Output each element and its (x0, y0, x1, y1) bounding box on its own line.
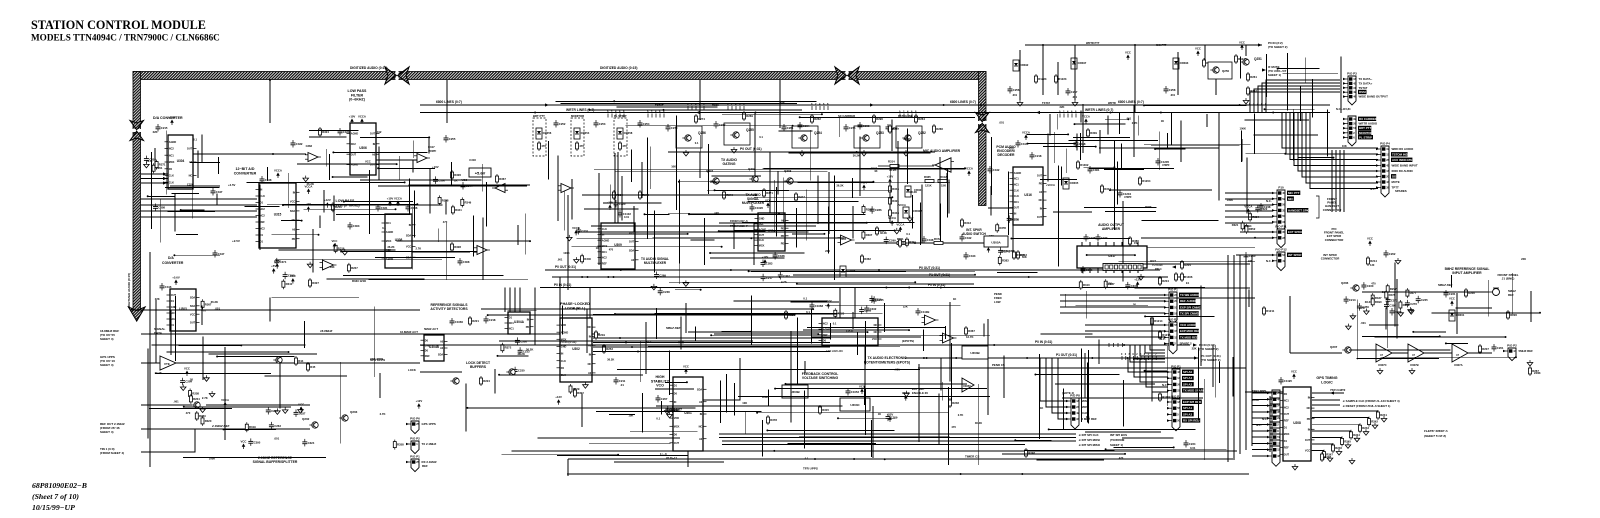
capacitor mid gap capacitor 1 (654, 272, 666, 280)
svg-text:R204: R204 (1184, 263, 1191, 267)
wire area B topmid h22 (710, 257, 784, 259)
ground ladder ground 2 (1363, 429, 1369, 435)
connector P1 mid a (1164, 292, 1178, 324)
wire area F rightmid v19 (1200, 286, 1202, 367)
wire area B2 h5 (764, 167, 966, 169)
svg-text:NC1: NC1 (602, 251, 608, 254)
wire area A2 topleft v4 (524, 214, 526, 255)
svg-text:R309: R309 (1090, 131, 1097, 135)
ground q202 knot2 ground 4 (275, 408, 281, 414)
svg-text:.001: .001 (274, 437, 280, 441)
junction bus junction 4 (1239, 104, 1241, 106)
svg-text:VCC: VCC (872, 338, 877, 341)
power power vcc u303c (859, 385, 865, 395)
wire area B topmid h11 (719, 230, 766, 232)
wire p4 feed 4 (1298, 170, 1377, 172)
svg-text:+10V: +10V (387, 197, 394, 201)
capacitor capacitor C240 (1244, 252, 1256, 260)
junction area H farright j8 (1445, 342, 1447, 344)
svg-text:36.2K: 36.2K (910, 190, 917, 194)
svg-text:WRTR AUDIO: WRTR AUDIO (1359, 122, 1378, 126)
wire area E3 v12 (734, 383, 736, 416)
resistor R311b (897, 237, 906, 245)
junction bus junction 16 (620, 269, 622, 271)
resistor u315 area resistor 0 (282, 279, 293, 289)
svg-text:68P81090E02−B: 68P81090E02−B (32, 481, 87, 490)
wire area C right of shield h5 (1141, 237, 1255, 239)
junction bus junction 21 (1127, 357, 1129, 359)
junction area A2 topleft j8 (404, 181, 406, 183)
wire area F rightmid v21 (1166, 346, 1168, 406)
wire p8 fan 1 (1046, 358, 1067, 407)
wire p1b fan 2 (1140, 358, 1168, 382)
power power vcc cr201 (1449, 297, 1455, 307)
ground ladder ground 3 (1354, 436, 1360, 442)
svg-text:LO1 LO2 LO3: LO1 LO2 LO3 (826, 349, 843, 353)
svg-text:C392: C392 (1389, 304, 1396, 308)
amp U307C tri (1376, 344, 1392, 362)
wire p1 mid feed 3 (1060, 312, 1165, 314)
wire p8 fan 3 (1058, 358, 1067, 419)
svg-text:C272: C272 (719, 123, 726, 127)
wire area B topmid v2 (774, 180, 776, 229)
svg-text:N.C.: N.C. (1256, 423, 1262, 427)
junction area E midbottom j8 (614, 313, 616, 315)
wire q206 to q207 h (1290, 352, 1342, 354)
resistor ladder resistor R243 (1359, 423, 1370, 433)
svg-text:DIGITIZED AUDIO (0:15): DIGITIZED AUDIO (0:15) (350, 66, 387, 70)
wire p4 corner 5 (1302, 113, 1378, 178)
svg-text:R271: R271 (159, 163, 166, 167)
svg-text:◄ RESET (FROM U518−6 SHEET 1): ◄ RESET (FROM U518−6 SHEET 1) (1342, 404, 1390, 408)
wire area A2 topleft h15 (279, 249, 396, 251)
wire bus p0 out mid (545, 269, 1160, 271)
svg-text:PD: PD (781, 227, 785, 230)
svg-text:NC2: NC2 (351, 143, 357, 146)
svg-text:IN: IN (700, 413, 703, 416)
svg-text:P0 OUT (0:31): P0 OUT (0:31) (740, 147, 762, 151)
svg-text:C318: C318 (469, 158, 476, 162)
svg-text:0.01: 0.01 (624, 215, 630, 219)
wire area B topmid v11 (631, 149, 633, 182)
wire area E3 h4 (655, 388, 694, 390)
svg-text:CLK: CLK (759, 239, 764, 242)
svg-text:10K: 10K (714, 211, 719, 215)
svg-text:C276: C276 (1410, 302, 1417, 306)
wire area B topmid v15 (912, 195, 914, 229)
svg-text:LOCK: LOCK (408, 368, 416, 372)
wire area A2 topleft h10 (341, 251, 477, 253)
wire p3 corner 1 (1254, 89, 1340, 113)
junction bus junction 11 (923, 357, 925, 359)
svg-text:VCC: VCC (1449, 297, 1455, 301)
wire area A2 topleft v10 (319, 215, 321, 228)
bus tick 5-3 (659, 114, 661, 118)
power q202 area power 6 (241, 440, 247, 450)
wire p10 feed 2 (1225, 204, 1273, 206)
wire area C2 v5 (1076, 133, 1078, 150)
ground epot right ground 0 (904, 391, 910, 397)
capacitor capacitor near Q252 (886, 124, 898, 132)
wire right bundle v2 (1239, 255, 1241, 454)
ground ground near Q252 (903, 150, 909, 156)
wire area A1 topleft v4 (160, 199, 162, 243)
ground u306 left ground 5 (303, 176, 309, 182)
svg-text:C279: C279 (671, 126, 678, 130)
svg-text:FLEPS−48638−A: FLEPS−48638−A (1424, 429, 1448, 433)
svg-text:R1213: R1213 (1162, 333, 1171, 337)
svg-text:POTENTIOMETERS (EPOTS): POTENTIOMETERS (EPOTS) (864, 361, 910, 365)
wire area B2 v0 (948, 180, 950, 214)
svg-text:2.7K: 2.7K (416, 247, 422, 251)
resistor u306 left resistor 2 (331, 202, 342, 212)
junction bus junction 6 (1026, 357, 1028, 359)
wire area C2 h8 (1151, 144, 1239, 146)
junction area C2 j2 (1127, 118, 1129, 120)
wire area B topmid v26 (806, 189, 808, 240)
svg-text:DATA: DATA (154, 331, 163, 335)
capacitor capacitor C361 (1088, 166, 1100, 174)
wire area H farright v4 (1356, 300, 1358, 360)
bus tick 3-3 (1261, 106, 1263, 110)
svg-text:HANDSET SPKR: HANDSET SPKR (1288, 208, 1312, 212)
junction area D connector j1 (1264, 108, 1266, 110)
svg-text:IN: IN (589, 335, 592, 338)
wire topright chain 6 (1204, 45, 1206, 60)
wire area G bottomleft v1 (202, 336, 204, 379)
ground q1 area ground 0 (209, 391, 215, 397)
bus tick 6-1 (903, 114, 905, 118)
svg-text:0.1: 0.1 (805, 457, 809, 461)
junction bus junction 29 (534, 112, 536, 114)
wire area B2 h9 (582, 194, 756, 196)
power mic area 2 power 0 (762, 255, 769, 265)
connector P11 ext spkr signal EXT SPKR (1287, 230, 1303, 234)
resistor u307b area resistor 0 (334, 243, 345, 253)
connector P2 5mhz (1503, 348, 1517, 361)
junction area H farright j0 (1539, 312, 1541, 314)
svg-text:0.1: 0.1 (656, 417, 660, 421)
svg-text:C358: C358 (1079, 142, 1086, 146)
capacitor q206 area capacitor 7 (1386, 296, 1398, 304)
svg-text:10K: 10K (671, 165, 676, 169)
capacitor capacitor C211 (614, 377, 626, 385)
wire area B topmid v32 (897, 141, 899, 223)
wire p3 corner 4 (1266, 80, 1340, 113)
power power vcc u301 (683, 365, 689, 375)
power power vcca u315 (274, 169, 282, 179)
wire area C2 h6 (1144, 143, 1250, 145)
svg-text:N.C.: N.C. (1266, 259, 1272, 263)
capacitor capacitor C312 (370, 128, 382, 136)
wire p3 feed vertical 1 (1335, 150, 1337, 212)
connector P10 handset signal MIC PTT (1287, 191, 1300, 195)
svg-text:R328: R328 (454, 245, 461, 249)
wire bus p0 in top (1025, 44, 1262, 46)
wire area E2 v5 (857, 332, 859, 355)
svg-text:.001: .001 (895, 367, 901, 371)
resistor resistor R1302 (1077, 160, 1089, 170)
junction area A1 topleft j2 (180, 209, 182, 211)
svg-text:P/O P2: P/O P2 (1507, 344, 1517, 348)
wire area E midbottom h6 (481, 308, 813, 310)
svg-text:P0 IN (0:31): P0 IN (0:31) (554, 283, 571, 287)
wire area F rightmid h5 (1035, 374, 1119, 376)
resistor q1 area resistor 1 (195, 411, 206, 421)
svg-text:R397: R397 (866, 233, 873, 237)
svg-text:R224: R224 (483, 379, 490, 383)
ground ladder ground 4 (1345, 442, 1351, 448)
svg-text:C209: C209 (891, 416, 898, 420)
svg-text:VCC: VCC (1367, 237, 1373, 241)
svg-text:1K: 1K (1161, 119, 1164, 123)
svg-text:C360: C360 (438, 178, 445, 182)
resistor resistor R326 (451, 170, 462, 180)
junction area F rightmid j9 (1105, 448, 1107, 450)
svg-text:C213: C213 (1349, 298, 1356, 302)
wire u304 nc bracket (154, 148, 156, 170)
power power +10v lpf1 (349, 115, 356, 125)
wire area H farright h0 (1432, 312, 1540, 314)
wire u317 bottom pin 7 (1137, 268, 1139, 273)
svg-text:C263: C263 (274, 424, 281, 428)
svg-text:AGND: AGND (351, 133, 359, 136)
svg-text:U315: U315 (274, 213, 282, 217)
capacitor capacitor C218 (1030, 152, 1042, 160)
junction bus junction 2 (1160, 112, 1162, 114)
svg-text:SDA: SDA (697, 388, 702, 391)
wire area E midbottom h10 (688, 331, 868, 333)
wire area E2 v8 (987, 320, 989, 334)
resistor resistor R343 (1017, 250, 1028, 260)
resistor resistor R224 (480, 376, 491, 386)
svg-text:36.2K: 36.2K (1252, 398, 1259, 402)
wire area A1 topleft v3 (216, 194, 218, 206)
wire bus p1 out mid (552, 276, 1168, 278)
transistor block Q253 (854, 126, 880, 148)
resistor u311 area resistor 1 (834, 308, 845, 318)
capacitor capacitor C207 (656, 395, 668, 403)
ground q202 area ground 2 (282, 407, 288, 413)
wire area C2 v2 (1099, 130, 1101, 154)
wire epot vertical 2 (854, 288, 856, 319)
wire area E midbottom v1 (940, 358, 942, 391)
wire spi wire 3 (722, 440, 1076, 442)
svg-text:SHEET 4): SHEET 4) (100, 363, 114, 367)
capacitor u304 area capacitor 1 (144, 156, 156, 164)
svg-text:36.2K: 36.2K (387, 245, 394, 249)
svg-text:CLK: CLK (561, 360, 566, 363)
diode diode CR254 (574, 128, 590, 139)
svg-text:NC1: NC1 (509, 328, 515, 331)
svg-text:1K: 1K (953, 297, 956, 301)
wire u317 bottom pin 3 (1105, 268, 1107, 273)
wire p4 corner 0 (1282, 113, 1378, 149)
connector P1 mid b signal SPI A0 (1182, 370, 1194, 374)
svg-text:IN: IN (674, 401, 677, 404)
svg-text:VCCA: VCCA (358, 115, 366, 119)
bus tick 3-1 (1253, 106, 1255, 110)
wire gating vertical (699, 152, 701, 178)
wire area B topmid h14 (572, 246, 722, 248)
wire area C right of shield v18 (1116, 162, 1118, 205)
svg-text:PIN 4: PIN 4 (1155, 267, 1162, 271)
wire gps nc bracket (1269, 396, 1271, 452)
wire area D connector v1 (1265, 54, 1267, 97)
svg-text:E1: E1 (1186, 281, 1190, 285)
wire 16.8mhz ref line (141, 333, 600, 335)
p0 in tick 3 (1122, 343, 1124, 347)
wire area A1 topleft v2 (174, 194, 176, 232)
svg-text:SHEET 4): SHEET 4) (100, 430, 114, 434)
wire area E2 v10 (695, 327, 697, 342)
capacitor capacitor C331 (376, 204, 388, 212)
resistor resistor R348 (889, 208, 900, 218)
capacitor pcm left capacitor 2 (1007, 215, 1019, 223)
bus tick 2-3 (823, 106, 825, 110)
svg-text:STATION CONTROL MODULE: STATION CONTROL MODULE (31, 18, 206, 32)
wire area C right of shield h13 (1142, 220, 1219, 222)
wire p4 feed 2 (1290, 159, 1377, 161)
wire area F rightmid h3 (1040, 333, 1092, 335)
wire area F rightmid v10 (1063, 389, 1065, 430)
junction area F rightmid j8 (1144, 370, 1146, 372)
svg-text:VCCA: VCCA (1022, 131, 1030, 135)
arrow tfr chips arrow (1330, 391, 1334, 394)
connector P3 (1343, 76, 1357, 105)
p1 out tick 7 (1148, 356, 1150, 360)
wire area B2 h3 (584, 208, 639, 210)
wire area B topmid v0 (678, 207, 680, 285)
svg-text:470PF: 470PF (1162, 163, 1170, 167)
shield border top band (133, 72, 986, 80)
resistor q1 knot resistor 0 (201, 416, 212, 426)
IC U311 (819, 318, 882, 346)
wire epot feedback vertical (918, 364, 920, 442)
resistor resistor near CR258 (619, 141, 628, 151)
wire p10 feed 5 (1225, 222, 1273, 224)
svg-text:SPI A1: SPI A1 (1183, 406, 1192, 410)
svg-text:6800 LINES (0:7): 6800 LINES (0:7) (436, 100, 462, 104)
junction bus junction 15 (908, 287, 910, 289)
junction bus junction 30 (955, 357, 957, 359)
resistor q206 knot resistor 0 (1371, 297, 1382, 307)
resistor resistor R207 (1479, 344, 1490, 354)
ground q206 area ground 1 (1408, 308, 1414, 314)
svg-text:28.30−12: 28.30−12 (666, 456, 677, 460)
junction bus junction 27 (1123, 344, 1125, 346)
ground mic area ground 7 (894, 228, 900, 234)
svg-text:C255: C255 (449, 137, 456, 141)
resistor R314 (878, 160, 934, 173)
IC U309 (598, 223, 639, 269)
junction pll out junction 3 (637, 351, 639, 353)
svg-text:WRTR LINES (0:7): WRTR LINES (0:7) (1085, 108, 1113, 112)
svg-text:121K: 121K (925, 184, 932, 188)
svg-text:U307A: U307A (1454, 363, 1463, 367)
svg-text:GND: GND (561, 346, 567, 349)
svg-text:C316: C316 (165, 285, 172, 289)
connector P11 ext spkr (1272, 229, 1286, 248)
wire area A1 topleft h0 (170, 185, 220, 187)
wire u304 sdata 4 (141, 216, 257, 218)
wire area B topmid v10 (547, 141, 549, 180)
svg-text:NC: NC (1307, 407, 1311, 410)
wire area E2 v9 (685, 303, 687, 333)
svg-text:IN: IN (409, 224, 412, 227)
wire area B topmid v6 (828, 207, 830, 254)
ground u301 area ground 0 (667, 412, 673, 418)
capacitor capacitor C1052 (846, 388, 860, 396)
svg-text:1K: 1K (1133, 302, 1136, 306)
wire area C2 v0 (1049, 114, 1051, 135)
junction area C2 j0 (1095, 146, 1097, 148)
svg-text:2.7K: 2.7K (958, 413, 964, 417)
svg-text:SDA: SDA (190, 297, 195, 300)
connector P2 mid b (1167, 399, 1181, 431)
wire area E midbottom h17 (557, 455, 688, 457)
svg-text:P10: P10 (1278, 186, 1284, 190)
transistor block Q252 (896, 126, 922, 148)
resistor mic area resistor 4 (905, 237, 916, 247)
capacitor mid top area capacitor 2 (433, 176, 445, 184)
transistor Q250 (1210, 67, 1219, 73)
bus tick 5-2 (655, 114, 657, 118)
resistor resistor R315 (819, 405, 830, 415)
wire area E2 h3 (803, 329, 909, 331)
resistor ladder resistor R247 (1323, 450, 1334, 460)
svg-text:TIMER CS: TIMER CS (965, 455, 979, 459)
svg-text:CR292: CR292 (1020, 63, 1029, 67)
capacitor capacitor near Q256 (666, 124, 678, 132)
power power u309 (607, 201, 614, 211)
svg-text:CR258: CR258 (624, 131, 633, 135)
svg-text:IN: IN (1014, 213, 1017, 216)
wire area B topmid h4 (722, 113, 822, 115)
svg-text:36.2K: 36.2K (836, 183, 843, 187)
diode diode CR301 (905, 186, 911, 197)
connector P3b signal RX CARRIER (1358, 117, 1378, 121)
wire area B topmid v17 (834, 176, 836, 280)
junction area B topmid j14 (721, 246, 723, 248)
wire u317 out wire (1147, 263, 1250, 265)
inverter VTE (160, 356, 176, 370)
svg-text:+5.6V: +5.6V (168, 116, 176, 120)
svg-text:NC: NC (1039, 199, 1043, 202)
wire tfr feed 9 (1252, 449, 1268, 451)
wire p3 corner 2 (1258, 86, 1340, 113)
arrow bus arrow 1 (545, 103, 549, 106)
wire area C2 v4 (1240, 130, 1242, 162)
svg-text:MCK: MCK (169, 161, 175, 164)
wire area D connector h6 (1282, 73, 1338, 75)
capacitor u304a area capacitor 0 (513, 367, 525, 375)
wire area C right of shield v14 (1054, 132, 1056, 163)
wire area E midbottom v12 (645, 322, 647, 374)
wire area C right of shield h1 (1027, 133, 1068, 135)
Q250 box (1208, 62, 1232, 79)
wire area A2 topleft v9 (485, 182, 487, 226)
wire area B topmid h29 (793, 274, 975, 276)
wire area B topmid v5 (678, 179, 680, 263)
op-amp op-amp U307C2 (474, 246, 490, 255)
svg-text:22K: 22K (780, 101, 785, 105)
p1 out tick 8 (1151, 356, 1153, 360)
wire u317 top pin 6 (1129, 242, 1131, 246)
junction area E midbottom j21 (497, 355, 499, 357)
svg-text:Q206: Q206 (1341, 281, 1349, 285)
wire area G bottomleft v2 (279, 362, 281, 408)
